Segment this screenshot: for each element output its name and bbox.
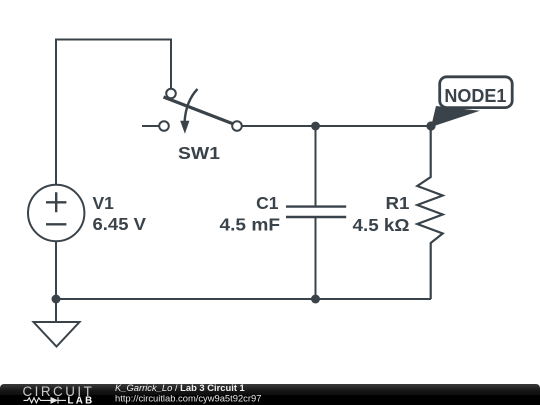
svg-text:4.5 kΩ: 4.5 kΩ xyxy=(353,215,410,235)
svg-text:LAB: LAB xyxy=(68,396,95,405)
svg-text:NODE1: NODE1 xyxy=(444,86,506,106)
svg-text:K_Garrick_Lo / Lab 3 Circuit 1: K_Garrick_Lo / Lab 3 Circuit 1 xyxy=(115,382,245,393)
svg-text:SW1: SW1 xyxy=(178,143,220,163)
svg-text:C1: C1 xyxy=(256,193,279,213)
svg-text:V1: V1 xyxy=(93,193,115,213)
svg-text:6.45 V: 6.45 V xyxy=(93,214,147,234)
svg-text:http://circuitlab.com/cyw9a5t9: http://circuitlab.com/cyw9a5t92cr97 xyxy=(115,393,261,404)
svg-text:4.5 mF: 4.5 mF xyxy=(220,214,281,234)
svg-text:R1: R1 xyxy=(386,193,410,213)
